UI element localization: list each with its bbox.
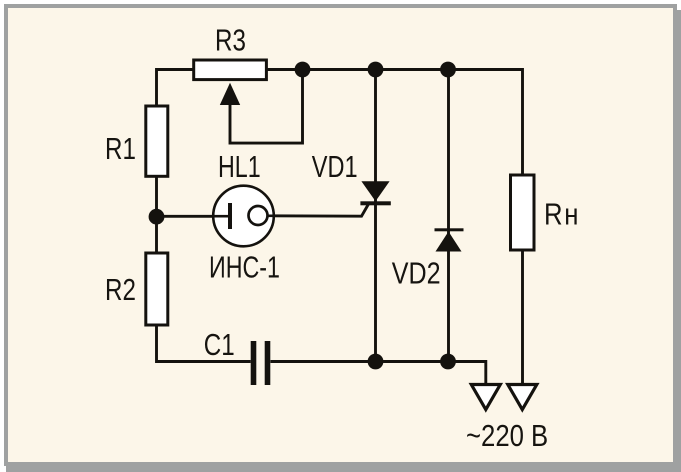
node dot bottom C xyxy=(440,354,456,370)
resistor R1 xyxy=(146,106,168,176)
svg-text:R3: R3 xyxy=(215,23,246,58)
svg-text:HL1: HL1 xyxy=(218,149,261,184)
wire R1 to R2 left vertical xyxy=(155,176,158,253)
node dot top B xyxy=(368,62,384,78)
svg-text:VD2: VD2 xyxy=(392,255,441,290)
svg-text:~220 В: ~220 В xyxy=(466,419,548,454)
wire bottom rail C1 to terminal xyxy=(271,362,486,385)
node dot bottom B xyxy=(368,354,384,370)
terminal right mains xyxy=(508,385,537,410)
resistor Rn load xyxy=(511,175,535,250)
svg-text:ИНС-1: ИНС-1 xyxy=(209,249,280,284)
wire top left horizontal xyxy=(157,70,194,107)
thyristor VD1 xyxy=(360,181,390,205)
svg-text:VD1: VD1 xyxy=(312,149,358,184)
wire R3 wiper stem and return xyxy=(230,70,303,143)
neon lamp HL1 xyxy=(213,186,275,247)
resistor R3 xyxy=(194,60,267,80)
node dot top C xyxy=(440,62,456,78)
svg-text:R2: R2 xyxy=(105,272,136,307)
svg-text:R1: R1 xyxy=(105,131,136,166)
resistor R2 xyxy=(146,253,168,325)
wire R2 to bottom rail xyxy=(157,325,251,362)
wire lamp left lead xyxy=(157,215,229,218)
wire top horizontal R3 to right corner xyxy=(266,70,522,176)
wire VD2 branch vertical xyxy=(447,70,450,362)
capacitor C1 xyxy=(254,341,268,385)
wire Rn lower vertical to terminal xyxy=(521,250,524,385)
svg-text:Rн: Rн xyxy=(544,197,578,232)
node junction left xyxy=(149,209,165,225)
wire lamp right lead to VD1 gate xyxy=(267,204,369,216)
potentiometer wiper arrow R3 xyxy=(220,83,240,105)
node dot top A xyxy=(295,62,311,78)
wire VD1 branch vertical xyxy=(374,70,377,362)
svg-text:C1: C1 xyxy=(204,327,235,362)
diode VD2 xyxy=(435,228,464,251)
terminal left mains xyxy=(471,385,500,410)
